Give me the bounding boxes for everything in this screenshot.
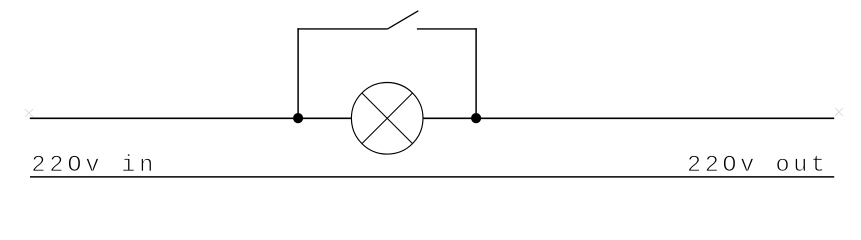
svg-text:22Ov in: 22Ov in [31, 152, 153, 179]
